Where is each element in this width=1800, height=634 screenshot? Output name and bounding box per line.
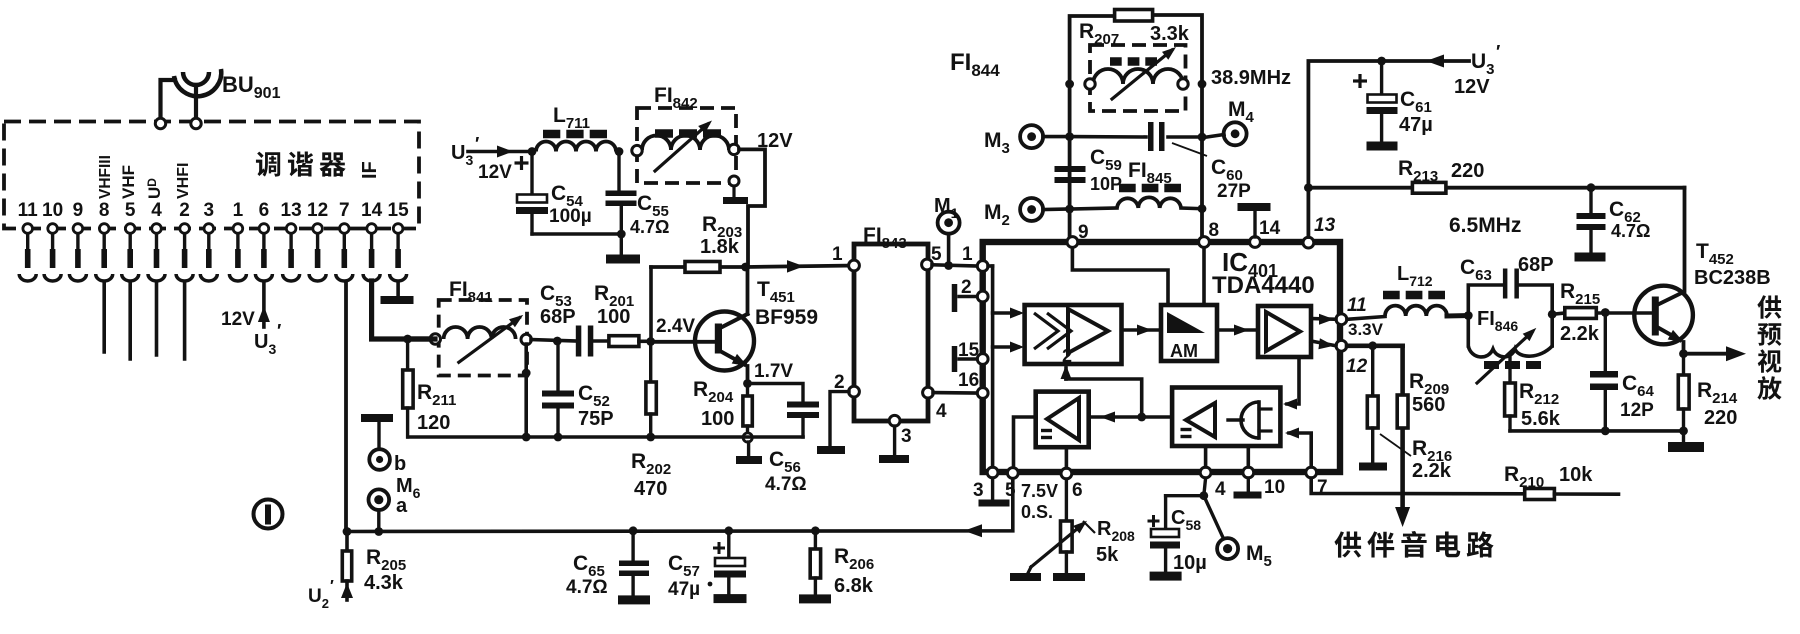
resistor R203 1.8k xyxy=(685,213,742,272)
label 调谐器 xyxy=(256,151,346,176)
svg-text:0.S.: 0.S. xyxy=(1021,502,1053,522)
wire detector to pin 10 xyxy=(1247,446,1251,467)
wire collector rail (2.4V node to FI843) xyxy=(651,265,746,269)
wire right tank rail (pin 8) xyxy=(1152,15,1202,236)
arrowhead on bottom rail (flow left) xyxy=(964,524,982,537)
svg-text:2.2k: 2.2k xyxy=(1412,460,1452,482)
tuner pin 15 xyxy=(388,200,410,281)
svg-text:2.2k: 2.2k xyxy=(1560,323,1600,345)
tuner block outline (dashed) xyxy=(4,122,419,229)
wire feed to IF amp input A xyxy=(993,311,1018,315)
ground below R208 (left) xyxy=(1010,573,1041,581)
IC pin 15 xyxy=(977,354,988,365)
tuner pin 7 xyxy=(336,200,353,281)
svg-text:14: 14 xyxy=(361,200,383,221)
node marker circled 1 xyxy=(254,500,283,529)
tuner pin 2 xyxy=(176,200,193,281)
svg-text:2: 2 xyxy=(834,372,845,393)
tuner pin 9 xyxy=(69,200,86,281)
capacitor C59 10P xyxy=(1055,146,1123,194)
wire pin 8 internal xyxy=(1202,248,1206,305)
svg-text:68P: 68P xyxy=(540,306,576,328)
svg-text:6.5MHz: 6.5MHz xyxy=(1449,214,1521,237)
capacitor C55 4.7 xyxy=(606,147,670,255)
IC pin 3 xyxy=(987,467,998,478)
svg-text:a: a xyxy=(396,495,408,517)
supply arrow U2 xyxy=(341,583,353,598)
ground at FI843 pin 3 xyxy=(893,426,896,456)
resistor R211 120 xyxy=(403,339,457,437)
svg-text:47µ: 47µ xyxy=(1399,114,1433,136)
tuner pin 6 xyxy=(255,200,272,281)
IC pin 9 xyxy=(1067,237,1078,248)
wire pin 9 to AM tank xyxy=(1072,248,1168,305)
video detector / AFC (IC internal) xyxy=(1172,388,1280,447)
capacitor C53 68P xyxy=(540,282,593,357)
wire AGC feedback (detector to AGC amp) xyxy=(1089,415,1172,419)
svg-text:BF959: BF959 xyxy=(755,306,818,329)
IC pin 1 xyxy=(977,261,988,272)
svg-text:120: 120 xyxy=(417,412,450,434)
svg-text:8: 8 xyxy=(99,200,110,221)
wire tuner pin 4 lead xyxy=(155,282,159,355)
svg-text:IF: IF xyxy=(359,161,381,179)
terminal M2 xyxy=(1020,198,1043,221)
svg-text:4: 4 xyxy=(1215,479,1226,500)
svg-text:27P: 27P xyxy=(1217,181,1251,202)
svg-text:AM: AM xyxy=(1170,341,1198,361)
capacitor C60 27P xyxy=(1070,122,1252,202)
svg-text:10: 10 xyxy=(42,200,63,221)
svg-text:10k: 10k xyxy=(1559,464,1593,486)
svg-text:7: 7 xyxy=(339,200,350,221)
svg-text:220: 220 xyxy=(1704,407,1737,429)
wire IC pin7 out xyxy=(1311,478,1524,494)
wire IC pin 4 to C58/M5 xyxy=(1204,478,1206,496)
svg-text:15: 15 xyxy=(388,200,410,221)
ground below R214 xyxy=(1668,442,1704,452)
capacitor C61 47µ xyxy=(1353,61,1433,142)
tuner pin 8 xyxy=(96,200,113,281)
ground at IC pin 10 xyxy=(1247,478,1250,492)
ground above IC pin 14 xyxy=(1238,203,1271,211)
capacitor C58 10µ xyxy=(1148,496,1207,574)
svg-text:9: 9 xyxy=(73,200,84,221)
svg-text:2: 2 xyxy=(179,200,190,221)
ground below R206 xyxy=(799,594,831,603)
resistor R209 560 (series) xyxy=(1397,370,1449,428)
wire pin 6 to AGC amp xyxy=(1065,447,1069,468)
svg-text:38.9MHz: 38.9MHz xyxy=(1211,67,1291,89)
svg-text:′: ′ xyxy=(1496,42,1500,62)
svg-text:1: 1 xyxy=(832,244,843,265)
filter FI841 xyxy=(430,300,531,376)
AM detector (IC internal) xyxy=(1161,305,1217,361)
wire collector node to FI843 pin 1 xyxy=(746,266,855,268)
svg-text:12V: 12V xyxy=(1454,76,1490,98)
IF amplifier stage (IC internal) xyxy=(1025,305,1122,366)
svg-text:TDA4440: TDA4440 xyxy=(1212,272,1315,299)
svg-text:47µ: 47µ xyxy=(668,579,700,600)
svg-text:3: 3 xyxy=(204,200,215,221)
svg-text:12: 12 xyxy=(1346,356,1368,377)
svg-text:4.7Ω: 4.7Ω xyxy=(566,577,608,598)
wire AGC to IF amp gain control xyxy=(1066,379,1142,417)
capacitor C62 4.7 xyxy=(1577,188,1651,253)
terminal M3 xyxy=(1020,125,1043,148)
supply U3 12V (top right) xyxy=(1382,59,1469,63)
capacitor C54 100µ xyxy=(515,152,592,235)
svg-text:470: 470 xyxy=(634,478,667,500)
resistor R214 220 xyxy=(1678,354,1738,442)
wire 12V rail down to collector node xyxy=(739,149,765,267)
svg-text:1.8k: 1.8k xyxy=(700,236,740,258)
filter FI842 xyxy=(632,108,748,204)
wire emitter bottom rail xyxy=(408,435,803,439)
node T452 emitter / output arrow xyxy=(1679,349,1688,358)
svg-text:11: 11 xyxy=(1347,295,1367,316)
wire FI843 pin4 to IC pin16 xyxy=(933,391,977,395)
resistor R210 10k xyxy=(1504,463,1619,500)
wire L712 to FI846 xyxy=(1447,313,1468,319)
svg-text:100: 100 xyxy=(701,408,734,430)
svg-text:4.7Ω: 4.7Ω xyxy=(765,474,807,495)
label 供伴音电路 xyxy=(1334,531,1493,558)
wire IC pin1 input bus xyxy=(988,264,993,268)
ground at FI843 pin 2 xyxy=(830,392,849,447)
resistor R201 100 xyxy=(594,282,639,347)
ground below R216 xyxy=(1359,463,1387,471)
node 2.4V xyxy=(639,339,651,343)
inductor L711 xyxy=(536,104,616,152)
wire feed to IF amp input B xyxy=(993,345,1018,349)
tuner pin 5 xyxy=(122,200,139,281)
tuner pin 13 xyxy=(281,200,302,281)
resistor R216 2.2k (to ground) xyxy=(1367,346,1452,482)
ground below R204 xyxy=(747,442,750,457)
svg-text:b: b xyxy=(394,453,406,475)
terminal M4 xyxy=(1224,122,1247,145)
ground below C55 xyxy=(606,255,640,264)
ground at tuner pin 15 xyxy=(396,282,400,297)
svg-text:1.7V: 1.7V xyxy=(754,361,793,382)
svg-text:3.3V: 3.3V xyxy=(1348,320,1384,339)
svg-text:11: 11 xyxy=(18,200,39,221)
svg-text:220: 220 xyxy=(1451,160,1484,182)
filter FI846 xyxy=(1464,285,1557,383)
ground below R208 (right) xyxy=(1053,573,1085,581)
wire tuner pin 8 lead xyxy=(102,282,106,352)
arrowhead to sound circuit xyxy=(1395,507,1410,527)
svg-text:100µ: 100µ xyxy=(549,206,592,227)
resistor R215 2.2k xyxy=(1552,280,1652,345)
svg-text:10: 10 xyxy=(1264,477,1285,498)
IC pin 6 xyxy=(1061,468,1072,479)
svg-text:5: 5 xyxy=(931,244,942,265)
svg-text:4: 4 xyxy=(936,401,947,422)
tuner pin 4 xyxy=(148,200,165,281)
wire tuner pin 5 lead xyxy=(128,282,132,359)
svg-text:′: ′ xyxy=(330,578,334,595)
IC pin 14 xyxy=(1250,237,1261,248)
terminal M5 xyxy=(1204,496,1225,541)
svg-text:12V: 12V xyxy=(221,309,255,330)
svg-text:12P: 12P xyxy=(1620,400,1654,421)
capacitor C57 47µ xyxy=(668,531,746,600)
tuner pin 3 xyxy=(200,200,217,281)
AGC amplifier (IC internal) xyxy=(1036,392,1089,448)
wire R213 rail xyxy=(1308,186,1684,190)
svg-text:BC238B: BC238B xyxy=(1694,267,1771,289)
tuner pin 12 xyxy=(307,200,328,281)
wire tuner pin 7 to bottom rail xyxy=(344,282,348,532)
IC pin 10 xyxy=(1243,467,1254,478)
resistor R205 4.3k xyxy=(342,532,406,601)
wire AGC amp to pin 5 xyxy=(1014,417,1036,467)
capacitor C56 4.7 xyxy=(752,384,819,496)
terminal M1 xyxy=(938,212,960,234)
resistor R206 6.8k xyxy=(810,531,874,597)
filter FI844 xyxy=(1085,45,1188,111)
wire U3 feed to L711 xyxy=(468,150,532,154)
svg-text:12: 12 xyxy=(307,200,328,221)
junction dots tank rails xyxy=(1065,80,1074,89)
svg-text:4: 4 xyxy=(151,200,162,221)
svg-text:1: 1 xyxy=(233,200,244,221)
svg-text:12V: 12V xyxy=(478,162,512,183)
capacitor C64 12P xyxy=(1590,313,1655,431)
wire 12V rail down to T452 collector xyxy=(1683,188,1687,291)
wire bottom rail (IC pin5 to R205) xyxy=(347,474,1013,532)
IC IC401 TDA4440 outline xyxy=(983,242,1340,472)
IC pin 12 xyxy=(1336,340,1347,351)
svg-text:9: 9 xyxy=(1078,222,1089,243)
terminal M6 b xyxy=(369,449,390,470)
svg-text:4.7Ω: 4.7Ω xyxy=(630,217,669,237)
IC pin 13 xyxy=(1303,237,1314,248)
svg-text:75P: 75P xyxy=(578,408,614,430)
ground below C57 xyxy=(714,594,747,603)
IC pin 7 xyxy=(1306,467,1317,478)
capacitor C63 68P xyxy=(1503,269,1508,299)
filter FI843 xyxy=(849,244,934,426)
wire AM detector to output amp xyxy=(1217,328,1258,332)
stub at IC pin 15 xyxy=(959,357,977,360)
IC pin 11 xyxy=(1336,314,1347,325)
svg-text:6.8k: 6.8k xyxy=(834,575,874,597)
inductor L712 xyxy=(1383,263,1447,316)
ground at IC pin 3 xyxy=(991,478,994,500)
svg-text:10P: 10P xyxy=(1090,174,1122,194)
svg-text:4.7Ω: 4.7Ω xyxy=(1611,221,1650,241)
output amplifier (IC internal) xyxy=(1258,306,1311,357)
svg-text:6: 6 xyxy=(259,200,270,221)
wire FI843 pin5 to IC pin1 xyxy=(932,265,977,266)
svg-text:1: 1 xyxy=(962,244,973,265)
svg-text:13: 13 xyxy=(281,200,302,221)
wire right bottom rail xyxy=(1510,429,1684,433)
svg-text:5k: 5k xyxy=(1096,544,1119,566)
wire left tank rail (pin 9) xyxy=(1070,16,1114,236)
resistor R213 220 xyxy=(1398,157,1484,193)
resistor R207 3.3k xyxy=(1079,10,1190,49)
IC pin 8 xyxy=(1199,237,1210,248)
svg-text:3: 3 xyxy=(973,480,984,501)
junction dots on bottom rail xyxy=(343,527,352,536)
potentiometer R208 5k xyxy=(1028,479,1135,573)
svg-text:VHF: VHF xyxy=(119,165,138,199)
tuner pin 14 xyxy=(361,200,383,281)
svg-text:16: 16 xyxy=(958,370,979,391)
node 1.7V / resistor R204 100 xyxy=(743,379,752,388)
filter FI845 xyxy=(1070,159,1202,209)
svg-text:68P: 68P xyxy=(1518,254,1554,276)
label 供预视放 xyxy=(1757,295,1781,400)
ground below C65 xyxy=(618,595,650,604)
svg-text:3: 3 xyxy=(901,426,912,447)
svg-text:VHFIII: VHFIII xyxy=(97,155,114,199)
ground below C61 xyxy=(1367,142,1398,151)
tuner pin 10 xyxy=(42,200,63,281)
svg-text:2: 2 xyxy=(1062,346,1072,366)
svg-text:10µ: 10µ xyxy=(1173,552,1207,574)
svg-text:5: 5 xyxy=(125,200,136,221)
svg-text:8: 8 xyxy=(1209,220,1220,241)
transistor T452 BC238B xyxy=(1634,286,1693,354)
tuner pin 11 xyxy=(18,200,39,281)
wire FI841 right pin down to emitter rail xyxy=(524,344,528,437)
transistor T451 BF959 xyxy=(695,267,754,384)
wire output amp down to detector xyxy=(1287,357,1299,404)
ground below C62 xyxy=(1575,253,1606,262)
wire IC pin11 to L712 xyxy=(1347,317,1385,320)
svg-text:100: 100 xyxy=(597,306,630,328)
wire output amp to pin 11 xyxy=(1311,317,1336,321)
wire T451 base xyxy=(651,340,715,344)
ground below C58 xyxy=(1150,572,1182,581)
wire IF amp to AM detector xyxy=(1122,328,1162,332)
svg-text:5.6k: 5.6k xyxy=(1521,408,1561,430)
capacitor C52 75P xyxy=(542,341,614,437)
wire tuner pin 2 lead xyxy=(183,282,187,359)
resistor R202 470 xyxy=(631,342,671,501)
svg-text:3.3k: 3.3k xyxy=(1150,23,1190,45)
svg-text:7.5V: 7.5V xyxy=(1021,481,1058,501)
svg-text:13: 13 xyxy=(1314,215,1336,236)
antenna BU901 xyxy=(155,69,221,129)
wire output amp to pin 12 xyxy=(1311,341,1336,346)
svg-text:4.3k: 4.3k xyxy=(364,572,404,594)
wire IC pin13 to 12V rail xyxy=(1308,61,1381,237)
wire detector to pin 4 xyxy=(1204,446,1208,467)
ground above terminal M6 b xyxy=(361,414,393,422)
capacitor C65 4.7 xyxy=(566,531,649,598)
supply 12V into tuner pin 6 xyxy=(221,282,270,330)
IC pin 2 xyxy=(977,291,988,302)
wire FI841 to C53 xyxy=(408,336,435,341)
svg-text:VHFI: VHFI xyxy=(175,163,192,199)
stub at IC pin 2 xyxy=(959,295,977,298)
resistor R212 5.6k xyxy=(1505,380,1561,431)
IC pin 4 xyxy=(1200,467,1211,478)
wire tuner pin 14 to FI841 xyxy=(372,281,435,339)
svg-text:′: ′ xyxy=(277,321,281,341)
wire pin 7 to detector xyxy=(1289,433,1311,467)
IC pin 5 xyxy=(1007,468,1018,479)
wire C54/C55 bottom xyxy=(532,232,621,235)
svg-text:5: 5 xyxy=(1005,480,1016,501)
svg-text:2.4V: 2.4V xyxy=(656,316,695,337)
svg-text:560: 560 xyxy=(1412,394,1445,416)
svg-text:6: 6 xyxy=(1072,480,1083,501)
tuner pin 1 xyxy=(229,200,246,281)
IC pin 16 xyxy=(977,388,988,399)
wire IC pin12 audio out (thick) xyxy=(1347,343,1403,348)
terminal M6 a xyxy=(369,489,390,510)
svg-text:14: 14 xyxy=(1259,218,1281,239)
